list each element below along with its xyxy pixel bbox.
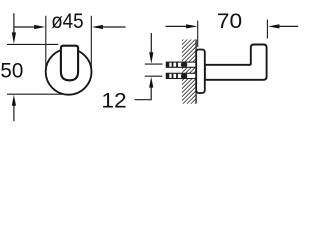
dim 50 bottom extension line <box>7 93 62 95</box>
hook arm side view <box>205 45 267 80</box>
dim 70 left extension line <box>197 21 199 48</box>
wall hatching <box>168 23 200 139</box>
dim ø45 left arrow <box>14 26 36 28</box>
svg-text:12: 12 <box>101 90 126 113</box>
wall face line <box>195 40 197 104</box>
dim 70 right arrow <box>277 25 298 27</box>
dim ø45 left extension line <box>45 16 47 71</box>
dim 12 upper arrow <box>150 33 152 56</box>
front view circle (flange ø45) <box>46 49 92 95</box>
stud lower <box>166 73 196 78</box>
dim 50 bottom arrow <box>13 103 15 121</box>
dim 12 lower extension line <box>145 75 163 77</box>
mounting plate side view <box>196 50 205 94</box>
svg-text:ø45: ø45 <box>51 10 83 33</box>
dim 50 top extension line <box>7 43 58 45</box>
dim 70 left arrow <box>166 25 189 27</box>
dim ø45 right extension line <box>90 16 92 69</box>
dim 12 lower arrow leader <box>135 85 152 100</box>
dim 12 upper extension line <box>145 63 163 65</box>
svg-text:70: 70 <box>217 10 242 33</box>
dim 50 top arrow <box>13 13 15 35</box>
svg-text:50: 50 <box>0 59 23 82</box>
stud upper <box>166 62 196 67</box>
dim ø45 right arrow <box>101 26 126 28</box>
front view hook capsule <box>61 46 78 81</box>
dim 70 right extension line <box>266 20 268 39</box>
